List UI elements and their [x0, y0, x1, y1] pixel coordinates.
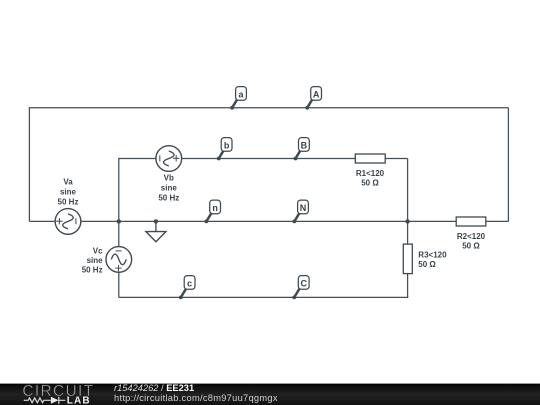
- svg-text:Va: Va: [63, 178, 73, 187]
- voltage source V3 Vc: [82, 246, 132, 274]
- resistor R3: [403, 244, 447, 274]
- wire Va right lead to junction: [81, 220, 119, 222]
- node tag c: [179, 276, 195, 300]
- svg-text:n: n: [212, 203, 218, 213]
- svg-text:50 Ω: 50 Ω: [361, 179, 379, 188]
- wire Vb left lead: [118, 158, 156, 160]
- node tag b: [217, 138, 232, 161]
- resistor R2: [456, 217, 486, 251]
- wire R1 right lead: [385, 158, 407, 160]
- svg-text:50 Hz: 50 Hz: [82, 266, 103, 275]
- wire Vc bottom to bottom wire: [118, 272, 120, 297]
- svg-text:Vc: Vc: [93, 246, 103, 255]
- svg-text:r15424262 / EE231: r15424262 / EE231: [114, 383, 194, 393]
- svg-text:sine: sine: [161, 184, 178, 193]
- ground GND: [146, 221, 166, 241]
- CircuitLab logo resistor-diode glyph: [24, 397, 66, 404]
- voltage source V2 Vb: [156, 146, 182, 203]
- junction at R3 top node: [405, 219, 409, 223]
- svg-text:b: b: [224, 141, 230, 151]
- svg-text:B: B: [301, 141, 308, 151]
- svg-text:c: c: [187, 279, 192, 289]
- wire vertical B column to junction: [407, 159, 409, 222]
- svg-text:R1<120: R1<120: [356, 169, 385, 178]
- svg-text:A: A: [313, 90, 320, 100]
- wire right vertical: [507, 108, 509, 222]
- node tag C: [292, 276, 309, 300]
- wire top horizontal a-A net: [29, 107, 508, 109]
- svg-text:Vb: Vb: [164, 174, 174, 183]
- voltage source V1 Va: [55, 178, 81, 235]
- footer bar: [0, 384, 540, 405]
- svg-text:R2<120: R2<120: [457, 232, 486, 241]
- wire R3 bottom lead: [407, 274, 409, 298]
- wire Vb to R1: [182, 158, 356, 160]
- svg-text:sine: sine: [87, 256, 104, 265]
- node tag a: [230, 87, 246, 110]
- svg-text:50 Ω: 50 Ω: [418, 260, 436, 269]
- svg-text:http://circuitlab.com/c8m97uu7: http://circuitlab.com/c8m97uu7qgmgx: [114, 393, 278, 403]
- wire n row from junction to R2: [119, 220, 456, 222]
- node tag B: [294, 138, 310, 161]
- wire Va left lead: [29, 220, 55, 222]
- svg-text:C: C: [300, 279, 307, 289]
- wire R2 right lead: [486, 220, 509, 222]
- wire bottom horizontal c-C net: [119, 296, 408, 298]
- node tag N: [293, 200, 309, 223]
- node tag n: [205, 200, 221, 223]
- svg-text:50 Hz: 50 Hz: [158, 193, 179, 202]
- svg-text:50 Hz: 50 Hz: [58, 197, 79, 206]
- node tag A: [305, 87, 321, 110]
- wire junction to Vc top: [118, 221, 120, 246]
- junction at Va/Vc node: [117, 219, 121, 223]
- svg-text:R3<120: R3<120: [418, 251, 447, 260]
- junction at ground node: [154, 219, 158, 223]
- svg-text:LAB: LAB: [67, 395, 91, 405]
- wire mid vertical upper (Vb corner to junction): [118, 159, 120, 222]
- resistor R1: [355, 154, 385, 188]
- wire junction to R3 top: [407, 221, 409, 244]
- svg-text:50 Ω: 50 Ω: [462, 242, 480, 251]
- svg-text:N: N: [300, 203, 307, 213]
- wire left vertical: [28, 107, 30, 221]
- svg-text:sine: sine: [60, 187, 77, 196]
